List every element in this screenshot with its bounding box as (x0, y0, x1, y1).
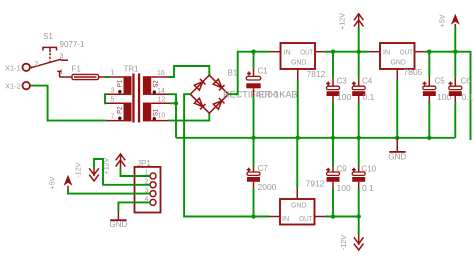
supply +12V at JP1 (102, 154, 126, 175)
voltage regulator IC3 7912 (270, 179, 326, 225)
svg-text:+5V: +5V (48, 176, 57, 189)
wire TR1-14 to center tap (168, 94, 176, 103)
capacitor C4 (352, 52, 375, 138)
TR1 pin 1 (110, 76, 124, 78)
supply -12V at JP1 (74, 162, 99, 181)
supply +5V at JP1 (48, 175, 73, 190)
svg-text:-12V: -12V (339, 235, 348, 250)
svg-text:1: 1 (111, 70, 115, 77)
svg-text:C1: C1 (258, 67, 269, 76)
diode D3 bottom-left (194, 98, 205, 109)
svg-text:OUT: OUT (300, 47, 314, 56)
svg-text:100: 100 (337, 92, 351, 102)
TR1 pin 12 (151, 102, 170, 104)
svg-text:C5: C5 (435, 77, 446, 86)
voltage regulator IC2 7805 (370, 43, 425, 81)
svg-text:X1-2: X1-2 (5, 81, 21, 90)
wire TR1-3 to TR1-5 link (105, 94, 107, 103)
svg-text:3: 3 (60, 53, 64, 60)
node C7 bottom junction (251, 214, 255, 218)
transformer TR1 (107, 65, 171, 123)
svg-text:0.1: 0.1 (363, 92, 375, 102)
svg-text:2000: 2000 (258, 182, 277, 192)
supply +5V top (437, 14, 459, 52)
svg-text:3: 3 (111, 87, 115, 94)
svg-text:P2: P2 (118, 106, 124, 114)
svg-text:TR1: TR1 (124, 65, 140, 74)
capacitor C9 (326, 138, 351, 217)
svg-text:+5V: +5V (437, 14, 446, 27)
wire center tap down to GND bus (175, 103, 177, 138)
TR1 winding P1 (124, 76, 132, 95)
capacitor C10 (352, 138, 377, 217)
wire GND bus (176, 137, 455, 139)
node C4 bus junction (357, 136, 361, 140)
svg-text:GND: GND (110, 220, 128, 229)
svg-text:IN: IN (284, 47, 291, 56)
svg-text:IN: IN (383, 47, 390, 56)
switch S1 (31, 32, 85, 77)
svg-text:C10: C10 (362, 165, 377, 174)
TR1 pin 5 (107, 102, 124, 104)
svg-text:OUT: OUT (299, 214, 313, 223)
svg-text:4000: 4000 (256, 90, 279, 100)
node center tap junction (174, 101, 178, 105)
svg-text:C4: C4 (362, 77, 373, 86)
fuse F1 (72, 65, 105, 80)
svg-text:F1: F1 (72, 65, 82, 74)
TR1 core (132, 74, 134, 123)
capacitor C7 (247, 138, 277, 217)
JP1 pin 1 (150, 173, 156, 179)
TR1 winding P2 (124, 103, 132, 122)
TR1 pin 16 (151, 76, 168, 78)
wire bridge minus down to 7912 IN rail (184, 94, 269, 216)
wire 7812 OUT rail (325, 51, 370, 53)
svg-text:1: 1 (60, 69, 64, 76)
node 7812 GND junction (296, 136, 300, 140)
svg-text:9077-1: 9077-1 (60, 40, 85, 49)
svg-text:7: 7 (111, 114, 115, 121)
wire JP1-1 to +12V (121, 168, 151, 177)
svg-text:GND: GND (391, 58, 406, 67)
svg-text:IN: IN (282, 214, 289, 223)
connector JP1 (135, 159, 161, 213)
svg-text:14: 14 (157, 88, 165, 95)
svg-text:B1: B1 (228, 69, 238, 78)
ground symbol GND net (388, 139, 406, 162)
svg-text:7912: 7912 (306, 179, 325, 189)
node C6 +5V junction (453, 50, 457, 54)
capacitor C1 (246, 52, 279, 138)
wire JP1-4 to GND (118, 202, 150, 211)
svg-text:C3: C3 (337, 77, 348, 86)
wire JP1-3 to +5V (68, 190, 150, 194)
wire 7812 GND to bus (297, 81, 299, 138)
svg-text:-12V: -12V (74, 162, 83, 177)
TR1 pin 3 (107, 93, 124, 95)
capacitor C5 (423, 52, 452, 138)
svg-text:C6: C6 (461, 77, 472, 86)
wire 7805 GND to bus (396, 81, 398, 138)
svg-text:P1: P1 (118, 79, 124, 87)
supply +12V top (337, 13, 363, 52)
svg-text:JP1: JP1 (137, 159, 151, 168)
capacitor C3 (326, 52, 351, 138)
svg-text:5: 5 (111, 96, 115, 103)
TR1 pin 7 (107, 120, 124, 122)
capacitor C6 (449, 52, 474, 138)
node C1/C7 GND junction (251, 136, 255, 140)
wire 7805 OUT rail (425, 52, 471, 140)
wire F1 to TR1 pin 1 (104, 76, 110, 78)
wire 7912 GND to bus (296, 138, 298, 188)
rectifier bridge B1 (190, 69, 297, 114)
svg-text:C7: C7 (258, 164, 269, 173)
svg-text:0.1: 0.1 (462, 92, 474, 102)
node C5 bus junction (427, 136, 431, 140)
connector X1-2 (5, 81, 30, 90)
TR1 winding S1 (143, 103, 151, 122)
wire 7912 OUT rail (325, 216, 359, 218)
svg-text:GND: GND (291, 201, 306, 210)
svg-text:OUT: OUT (400, 47, 414, 56)
wire TR1-16 to bridge AC1 (168, 66, 209, 77)
node C9 bottom junction (331, 214, 335, 218)
svg-text:GND: GND (388, 153, 406, 162)
TR1 pin 10 (151, 120, 168, 122)
node 7805 GND junction (395, 136, 399, 140)
svg-text:16: 16 (157, 70, 165, 77)
ground symbol at JP1 (110, 212, 128, 230)
connector X1-1 (5, 64, 30, 73)
JP1 pin 4 (150, 199, 156, 205)
diode D1 top-left (194, 79, 205, 90)
svg-text:7812: 7812 (307, 69, 326, 79)
TR1 winding S2 (143, 76, 151, 95)
node C4 +12V junction (357, 50, 361, 54)
JP1 pin 2 (150, 182, 156, 188)
wire bridge plus to 7812 IN rail (228, 52, 269, 94)
diode D2 top-right (213, 79, 224, 90)
svg-text:S2: S2 (153, 80, 159, 88)
svg-text:C9: C9 (337, 165, 348, 174)
wire TR1-10 to bridge AC2 (168, 113, 209, 120)
svg-text:7805: 7805 (404, 67, 423, 77)
svg-text:+12V: +12V (337, 13, 346, 30)
node C3 top junction (331, 50, 335, 54)
svg-text:GND: GND (291, 58, 306, 67)
node C5 junction (427, 50, 431, 54)
wire JP1-2 to -12V (94, 159, 150, 185)
diode D4 bottom-right (213, 98, 224, 109)
svg-text:100: 100 (337, 183, 351, 193)
wire TR1-12 to center tap (170, 102, 176, 104)
JP1 pin 3 (150, 191, 156, 197)
supply -12V bottom (339, 217, 364, 251)
svg-text:2: 2 (35, 61, 39, 68)
svg-text:0.1: 0.1 (362, 183, 374, 193)
svg-text:12: 12 (158, 96, 166, 103)
node C1 top junction (251, 50, 255, 54)
node C3 bus junction (331, 136, 335, 140)
svg-text:X1-1: X1-1 (5, 64, 21, 73)
voltage regulator IC1 7812 (270, 43, 326, 81)
svg-text:10: 10 (158, 112, 166, 119)
wire X1-2 to TR1 pin 7 (30, 86, 106, 121)
node C10 -12V junction (357, 214, 361, 218)
TR1 pin 14 (151, 93, 168, 95)
wire X1-1 to S1 (30, 66, 32, 68)
svg-text:S1: S1 (43, 32, 53, 41)
